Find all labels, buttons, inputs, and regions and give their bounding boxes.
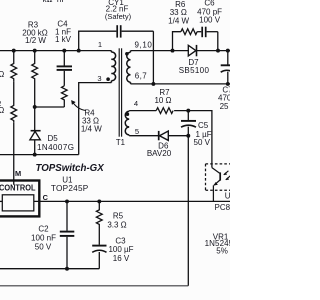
svg-text:6,7: 6,7 [135,71,147,80]
label D5 [37,134,74,152]
label C5 [194,121,212,147]
label D6 [147,142,172,158]
svg-text:(Safety): (Safety) [105,12,132,21]
wire pin 4 row [129,110,156,112]
svg-text:3.3 Ω: 3.3 Ω [107,221,126,230]
diode D5 [30,107,41,155]
capacitor C3 [92,246,106,269]
label R7 [154,88,171,105]
transformer secondary winding pins 9,10-6,7 [127,51,131,84]
resistor R1 (line sense, label off-crop) [11,51,17,82]
svg-text:3: 3 [97,74,101,83]
resistor R2 (line sense, label off-crop) [11,82,17,123]
label R4 with arrow [81,109,102,134]
wire pin 5 row [129,135,158,137]
capacitor C6 [202,27,218,38]
label VR1 (clipped) [205,232,239,255]
node primary phasing dot [106,77,110,81]
capacitor CY1 [117,25,153,37]
svg-text:1 kV: 1 kV [55,35,72,44]
wire R7 to opto collector [174,111,212,168]
label C2 [31,225,56,252]
label C6 [197,0,222,24]
svg-text:16 V: 16 V [113,254,130,263]
node CY1 return dot [151,82,155,86]
wire drain riser to pin 3 [79,83,112,155]
svg-text:100 V: 100 V [199,15,221,24]
svg-text:10 Ω: 10 Ω [154,96,171,105]
wire HV rail [0,50,111,52]
node bias phasing dot [126,112,130,116]
svg-text:Ω: Ω [0,70,4,79]
wire secondary return rail [131,83,231,85]
wire C pin row [34,200,230,202]
label C3 [108,237,133,264]
wire drain link [0,154,79,156]
wire clamp node [35,106,65,108]
label D7 [179,58,210,75]
svg-text:50 V: 50 V [194,138,211,147]
CONTROL inner block [2,195,34,211]
wire R4 pointer arrow [72,101,87,111]
resistor R6 33R [181,29,197,35]
svg-text:100 nF: 100 nF [31,234,56,243]
wire bias return [187,136,189,286]
node clamp dot [33,105,37,109]
svg-text:1/4 W: 1/4 W [168,16,189,25]
svg-text:TOPSwitch-GX: TOPSwitch-GX [36,163,105,174]
svg-text:TOP245P: TOP245P [51,184,89,193]
resistor R5 3.3R [96,201,102,244]
node secondary phasing dot [125,52,129,56]
resistor R7 10R [156,108,173,114]
node HV rail junction dots [12,49,81,53]
wire CY1 riser [79,31,117,50]
resistor R3 200k [32,51,38,107]
svg-text:C5: C5 [198,121,209,130]
svg-text:PC817: PC817 [215,203,231,212]
svg-text:1: 1 [98,40,102,49]
transformer T1 primary winding pins 1-3 [111,51,115,83]
node C5 top dot [186,109,190,113]
svg-text:C: C [43,193,49,202]
wire bias return bottom run [0,285,188,287]
svg-text:C2: C2 [38,225,49,234]
transformer core [119,48,121,136]
svg-text:kΩ nF: kΩ nF [43,0,67,4]
diode D6 [159,131,189,141]
svg-text:5%: 5% [216,246,228,255]
node C2 bus dot [65,267,69,271]
capacitor C4 [57,51,72,86]
svg-text:D5: D5 [48,134,59,143]
opto LED light arrows [224,171,231,180]
node D5 drain dot [33,153,37,157]
resistor R4 33R [62,86,68,107]
capacitor C7 output [221,51,233,84]
node C5 bottom dot [186,134,190,138]
svg-text:R5: R5 [113,212,124,221]
wire snubber mid [197,31,201,33]
label R3 [22,20,48,45]
wire CY1 to secondary return [152,31,154,84]
wire source bus [0,268,99,270]
svg-text:U2: U2 [225,192,230,201]
wire control node stub [0,200,2,202]
svg-text:M: M [15,169,21,178]
node C pin dots [65,199,101,203]
svg-text:5: 5 [135,127,139,136]
wire snubber riser right [217,32,219,51]
svg-text:4: 4 [134,99,138,108]
label CY1 [105,0,132,21]
capacitor C5 [181,111,196,136]
svg-text:SB5100: SB5100 [179,66,210,75]
wire M pin line [13,123,15,185]
svg-text:100 µF: 100 µF [108,245,133,254]
label C4 [55,19,72,44]
wire secondary output rail [131,50,231,52]
svg-text:CONTROL: CONTROL [0,184,36,193]
svg-text:Ω: Ω [0,106,4,115]
svg-text:1/4 W: 1/4 W [81,125,102,134]
label off-crop resistor ohms lower [0,99,4,115]
svg-text:25 V: 25 V [220,102,230,111]
svg-text:50 V: 50 V [35,243,52,252]
svg-text:1N4007G: 1N4007G [37,143,74,152]
svg-text:T1: T1 [116,138,125,147]
node snubber dots [171,49,230,53]
optocoupler U2 dashed box [206,164,234,190]
label R6 [168,0,189,25]
svg-text:9,10: 9,10 [135,41,153,50]
svg-text:BAV20: BAV20 [147,149,172,158]
TOPSwitch U1 outline box [0,181,39,217]
opto phototransistor [212,168,220,202]
label R5 [107,212,126,230]
capacitor C2 [60,201,75,268]
wire snubber riser left [173,32,181,51]
node C7 return dot [226,82,230,86]
transformer bias winding pins 4-5 [125,111,129,136]
label C7 (clipped) [218,86,243,111]
svg-text:1/2 W: 1/2 W [25,36,46,45]
diode D7 [188,45,196,56]
